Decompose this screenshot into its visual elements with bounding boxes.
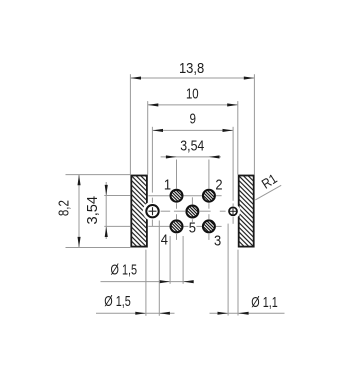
left mounting hole [146,205,158,217]
svg-text:10: 10 [186,86,199,103]
dimension 3,54 top line [161,137,221,158]
extension line contact 4 right edge [182,236,184,284]
extension line 13,8 left [129,74,131,174]
svg-text:5: 5 [189,219,196,236]
wire: centerline column contacts 1-4 [176,160,178,240]
svg-text:3,54: 3,54 [84,196,101,225]
svg-text:Ø 1,1: Ø 1,1 [251,294,277,311]
wire: centerline column contacts 2-3 [208,160,210,240]
extension line 3,54 left upper [104,195,130,197]
contact 4 [171,220,183,232]
radius R1 leader [255,185,281,200]
svg-text:13,8: 13,8 [179,60,204,77]
svg-text:3: 3 [214,232,221,249]
svg-text:Ø 1,5: Ø 1,5 [111,261,138,278]
contact 3 [203,220,215,232]
svg-text:8,2: 8,2 [56,200,73,216]
wire: centerline row 1 [148,195,221,197]
contact 5 center [186,206,198,218]
extension line right hole left edge [227,224,229,316]
wire: centerline right hole vertical dashes [232,203,234,223]
dimension O 1,5 contact line [101,261,194,283]
wire: centerline left hole vertical dashes [151,198,153,227]
extension line 8,2 top [66,174,131,176]
wire: centerline row 2 [148,225,221,227]
dimension 10 line [148,86,238,107]
extension line 10 right [237,101,239,175]
dimension 9 line [152,111,233,132]
dimension O 1,1 line [210,294,285,315]
clearance notch around left mounting hole [143,202,162,221]
svg-text:3,54: 3,54 [180,137,204,154]
svg-text:4: 4 [161,231,168,248]
left flange section [131,176,147,247]
extension line right hole right edge [237,250,239,316]
extension line 13,8 right [253,74,255,174]
clearance notch around right mounting hole [226,204,241,219]
dimension O 1,5 left hole line [96,293,175,315]
wire: horizontal centerline middle row [161,210,226,212]
extension line 3,54 left lower [104,225,130,227]
right flange section [239,176,254,247]
extension line 8,2 bottom [66,247,131,249]
svg-text:2: 2 [215,176,222,193]
extension line contact 4 left edge [169,236,171,284]
extension line 10 left [147,101,149,175]
svg-text:Ø 1,5: Ø 1,5 [104,293,131,310]
svg-text:9: 9 [189,111,196,128]
dimension 3,54 left line [84,182,108,239]
extension line 9 left [151,127,153,193]
svg-text:1: 1 [164,176,171,193]
contact 2 [203,190,215,202]
extension line left hole left edge [145,250,147,316]
wire: centerline column contact 5 [191,197,193,222]
right mounting hole [229,207,237,215]
dimension 13,8 line [130,60,254,79]
extension line left hole right edge [158,221,160,316]
dimension 8,2 line [56,175,81,248]
extension line 9 right [232,127,234,201]
contact 1 [171,190,183,202]
